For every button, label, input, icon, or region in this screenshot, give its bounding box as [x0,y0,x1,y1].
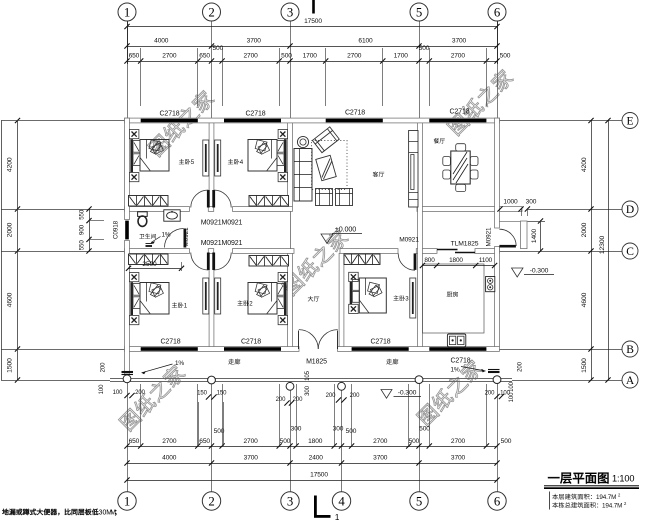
dim row bottom fine chain [127,446,497,448]
svg-text:12300: 12300 [599,236,606,255]
svg-text:C2718: C2718 [370,339,390,346]
door M0921 bed3 [414,253,417,270]
svg-text:500: 500 [280,438,291,445]
svg-text:1: 1 [124,5,130,19]
svg-text:1%: 1% [175,360,185,367]
svg-text:C0918: C0918 [113,220,120,239]
axis bubble 6 bottom [488,492,506,510]
hall corridor boundary line col3 [290,211,292,248]
svg-text:1700: 1700 [303,53,318,60]
svg-text:6: 6 [494,5,501,19]
room label 大厅 [308,296,319,302]
svg-text:TLM1825: TLM1825 [451,241,479,248]
room label 厨房 [447,291,458,297]
svg-text:100: 100 [113,390,123,396]
room label 主卧5 [179,159,195,166]
wardrobe bed4 [249,196,289,207]
svg-text:2700: 2700 [162,53,177,60]
svg-text:800: 800 [424,257,435,264]
bed 主卧5 [129,130,139,139]
axis bubble B right [622,341,638,357]
svg-text:17500: 17500 [304,18,322,25]
svg-text:1500: 1500 [7,358,14,373]
svg-text:5: 5 [416,495,422,509]
wall interior col5 dining/kitchen west [418,123,423,347]
svg-text:105: 105 [305,370,311,380]
wall C row segments [125,249,190,254]
wardrobe bed2 [249,256,289,267]
watermark 图纸之家 #5 [415,358,484,427]
svg-text:2000: 2000 [581,222,588,237]
kitchen top dim 800/1800/1100 [422,265,494,267]
wall east exterior [495,118,500,228]
dim row bottom segments 4000/3700/2400/3700/3700 [127,463,497,465]
dim row top 17500 [127,26,497,28]
svg-text:D: D [626,204,634,216]
svg-text:200: 200 [326,393,336,399]
armchair living south 2 [336,189,353,206]
level mark ±0.000 [321,234,333,244]
svg-text:550: 550 [79,240,86,251]
slope 1% arrow west [142,364,173,373]
dining table [451,151,470,184]
level mark -0.300 south [381,390,392,399]
section mark 1 top [312,0,315,14]
axis bubble 3 bottom [281,492,299,510]
bed 主卧3 [349,272,359,281]
svg-text:650: 650 [199,53,210,60]
svg-text:300: 300 [305,385,311,395]
svg-text:1500: 1500 [581,358,588,373]
dim chain right inner [591,121,593,381]
svg-text:2000: 2000 [7,222,14,237]
svg-text:±0.000: ±0.000 [335,225,356,234]
svg-text:6: 6 [494,495,501,509]
bathroom washbasin [164,210,180,221]
cabinet pair bed5/bed4 [203,140,209,176]
axis bubble A right [622,372,638,388]
svg-text:C2718: C2718 [449,109,469,116]
room label 餐厅 [434,138,445,143]
note text bottom left [2,509,116,517]
watermark 图纸之家 #2 [446,67,515,136]
svg-text:1800: 1800 [449,257,463,264]
svg-text:500: 500 [214,428,225,435]
svg-text:M0921: M0921 [486,227,493,247]
extension lines top window edges [140,48,142,106]
svg-text:-0.300: -0.300 [398,390,417,397]
door M0921 bed2 [212,253,215,271]
watermark 图纸之家 #4 [118,363,187,432]
window C2718 bed1 south [141,347,198,351]
svg-text:500: 500 [281,53,292,60]
svg-text:550: 550 [79,209,86,220]
svg-text:1: 1 [335,513,340,520]
svg-text:4600: 4600 [7,292,14,307]
window C2718 living north [326,119,383,123]
drain grate west [122,371,134,373]
axis bubble C right [622,243,638,259]
wardrobe bed3 [344,254,380,265]
svg-text:4600: 4600 [581,292,588,307]
svg-text:C2718: C2718 [160,339,180,346]
veranda columns [123,375,131,383]
svg-text:M0921: M0921 [399,237,419,244]
extension lines right rows [499,120,622,122]
dim row top fine chain [127,61,497,63]
axis bubble 3 top [281,3,299,21]
door M0921 east entrance [499,245,516,248]
svg-text:194.7M: 194.7M [602,503,622,510]
svg-text:M0921M0921: M0921M0921 [201,220,243,227]
side table round living [297,136,308,147]
bed 主卧1 [129,273,139,282]
window C2718 kitchen south [429,347,486,351]
door M1825 hall double [298,331,300,350]
svg-text:3700: 3700 [452,38,467,45]
axis bubble 2 bottom [202,492,220,510]
svg-text:2700: 2700 [347,53,362,60]
slope 1% arrow east [461,367,486,372]
wall interior col4 halls [339,253,344,346]
svg-text:2400: 2400 [309,455,324,462]
extension lines bottom window edges [140,384,142,446]
wall B exterior south [125,347,299,352]
svg-text:4: 4 [338,495,345,509]
svg-text:C2718: C2718 [241,339,261,346]
axis line grid 1 top [127,21,129,118]
svg-text:4000: 4000 [162,455,177,462]
svg-text:C2718: C2718 [345,110,365,117]
svg-text:1800: 1800 [308,438,323,445]
svg-text:150: 150 [197,391,207,397]
svg-text:4000: 4000 [154,38,169,45]
svg-text:200: 200 [276,397,286,403]
axis bubble E right [622,113,638,129]
svg-text:500: 500 [501,438,512,445]
wall C bed3 north [340,249,398,254]
svg-text:C2718: C2718 [245,111,265,118]
dim row bottom 17500 [127,480,497,482]
svg-text:17500: 17500 [310,472,328,479]
wall west exterior [125,118,130,220]
axis line grid cols bottom [127,381,129,492]
section mark 1 bottom [314,496,317,518]
svg-text:3: 3 [287,495,293,509]
level mark -0.300 east [512,268,524,277]
tv cabinet living east [409,131,418,208]
svg-text:5: 5 [416,5,422,19]
cabinet bed3 east wall [410,278,416,318]
wardrobe bed5 [129,196,169,207]
room label 主卧1 [172,302,188,309]
watermark 图纸之家 #3 [281,227,350,296]
watermark 图纸之家 #1 [147,88,216,157]
drain grate east [488,369,500,371]
svg-text:2700: 2700 [162,438,177,445]
svg-text:100: 100 [509,381,515,391]
window C2718 bed2 south [224,347,281,351]
axis bubble 6 top [488,3,506,21]
kitchen sink [447,334,465,347]
svg-text:C2718: C2718 [159,111,179,118]
svg-text:650: 650 [129,53,140,60]
svg-text:B: B [626,344,634,356]
extension lines left rows [1,120,125,122]
svg-text:-0.300: -0.300 [530,268,549,275]
title 一层平面图 1:100 [548,473,608,484]
svg-text:200: 200 [518,361,524,371]
svg-text:3700: 3700 [244,455,259,462]
svg-text:650: 650 [129,438,140,445]
axis bubble 1 bottom [118,492,136,510]
bathroom toilet [138,212,148,217]
kitchen stove [486,277,495,292]
svg-text:200: 200 [293,397,303,403]
dim row top segments 4000/3700/6100/3700 [127,46,497,48]
cabinet pair bed1/bed2 [203,278,209,314]
sliding door TLM1825 kitchen [437,249,458,251]
dim 2500 bed1 wardrobe [129,268,182,270]
door M0921 bed5 [207,190,210,208]
axis bubble D right [622,201,638,217]
axis bubble 2 top [203,3,221,21]
dim chain left bathroom 550/900/550 [89,209,91,251]
svg-text:C2718: C2718 [450,358,470,365]
svg-text:3700: 3700 [451,455,466,462]
porch pier east [521,221,528,249]
axis bubble 1 top [118,3,136,21]
veranda edge double line [110,378,512,380]
svg-text:2700: 2700 [451,53,466,60]
wardrobe bed1 [129,254,169,265]
svg-text:1100: 1100 [479,257,493,264]
wall D dining south + porch wing wall [417,207,522,212]
room label 走廊 west [228,359,240,365]
svg-text:100: 100 [99,384,105,394]
svg-text:900: 900 [79,224,86,235]
svg-text:4200: 4200 [581,157,588,172]
svg-text:1000: 1000 [503,199,518,206]
room label 主卧4 [228,159,244,166]
svg-text:3: 3 [287,5,293,19]
svg-text:2: 2 [208,495,214,509]
rug dotted living [312,141,348,190]
svg-text:200: 200 [135,390,145,396]
armchair living south 1 [316,189,333,206]
door M0921 bed4 [212,190,215,208]
svg-text:500: 500 [212,45,223,52]
room label 走廊 east [386,359,398,365]
svg-text:2700: 2700 [243,438,258,445]
axis bubble 4 bottom [332,492,350,510]
room label 主卧3 [393,295,409,302]
svg-text:4200: 4200 [7,157,14,172]
bathroom floor drain and slope arrow [151,237,161,243]
window C2718 dining north [429,119,486,123]
wall interior col2 [209,123,214,207]
svg-text:100: 100 [509,392,515,402]
svg-text:2500: 2500 [142,261,157,268]
kitchen counter rect [423,264,485,333]
window C2718 bed3 south [352,347,409,351]
dim chain left outer [1,121,3,381]
door M0921 bed1 [207,253,210,271]
wall interior col3 [288,123,293,207]
svg-text:2: 2 [208,5,214,19]
svg-text:M0921: M0921 [183,227,190,247]
svg-text:500: 500 [500,53,511,60]
svg-text:1%: 1% [162,232,171,239]
svg-text:M1825: M1825 [306,359,327,366]
room label 主卧2 [237,300,253,307]
bed 主卧4 [278,130,288,139]
svg-text:2700: 2700 [451,438,466,445]
door M0921 bathroom [184,229,187,248]
svg-text:150: 150 [217,391,227,397]
svg-text:E: E [627,115,634,127]
wall E exterior north [125,118,500,123]
svg-text:500: 500 [419,45,430,52]
svg-text:2700: 2700 [373,438,388,445]
svg-text:2700: 2700 [243,53,258,60]
svg-text:6100: 6100 [358,38,373,45]
window C2718 bed5 north [141,119,198,123]
armchair living rotated [312,127,339,153]
svg-text:A: A [626,375,635,387]
svg-text:200: 200 [350,393,360,399]
title block area lines [549,492,551,510]
bed 主卧2 [278,273,288,282]
svg-text:500: 500 [419,426,430,433]
room label 客厅 [373,171,385,177]
svg-text:1400: 1400 [531,228,538,243]
sofa living [294,149,312,202]
svg-text:650: 650 [199,438,210,445]
svg-text:1:100: 1:100 [612,474,634,484]
wall D row: bathroom/bedroom segment [125,207,190,212]
svg-text:300: 300 [526,199,537,206]
svg-text:1700: 1700 [394,53,409,60]
svg-text:3700: 3700 [247,38,262,45]
svg-text:3700: 3700 [373,455,388,462]
svg-text:M0921M0921: M0921M0921 [201,240,243,247]
svg-text:200: 200 [101,362,107,372]
svg-text:500: 500 [409,438,420,445]
room label 卫生间 [139,234,156,239]
svg-text:1%: 1% [450,367,460,374]
svg-text:C: C [626,246,634,258]
axis bubble 5 bottom [410,492,428,510]
coffee table living [316,155,336,180]
axis bubble 5 top [410,3,428,21]
porch dim 1400 [540,221,542,251]
porch dims 1000/300 [497,206,502,211]
svg-text:1: 1 [124,495,130,509]
dining chairs [456,144,466,151]
svg-text:200: 200 [485,391,495,397]
window C2718 bed4 north [224,119,281,123]
dim chain right outer 12300 [608,121,610,381]
window C0918 bathroom west [125,221,129,240]
svg-text:194.7M: 194.7M [596,494,616,501]
